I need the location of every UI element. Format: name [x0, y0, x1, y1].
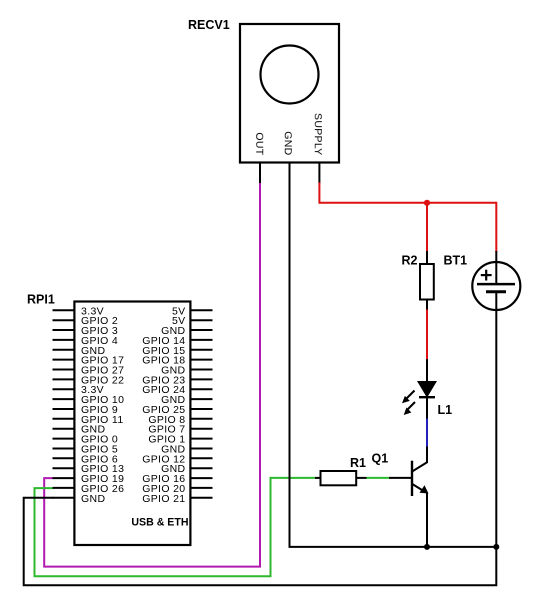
node junction red rail	[424, 200, 430, 206]
pin stub right row 4 (GPIO 14)	[190, 339, 213, 341]
pin stub right row 18 (GPIO 16)	[190, 477, 213, 479]
wire red SUPPLY to rail	[319, 182, 496, 202]
svg-text:USB & ETH: USB & ETH	[131, 517, 188, 529]
wire red rail down to R2	[426, 203, 428, 252]
pin stub right row 12 (GPIO 8)	[190, 418, 213, 420]
pin stub right row 5 (GPIO 15)	[190, 349, 213, 351]
wire black emitter/ground rail	[289, 546, 498, 548]
pin stub right row 3 (GND)	[190, 329, 213, 331]
pin stub right row 14 (GPIO 1)	[190, 438, 213, 440]
wire black RECV1 GND down	[289, 162, 291, 547]
pin stub right row 2 (5V)	[190, 319, 213, 321]
pin stub left row 19 (GPIO 26)	[53, 487, 76, 489]
pin stub left row 9 (3.3V)	[53, 388, 76, 390]
pin stub left row 8 (GPIO 22)	[53, 378, 76, 380]
svg-text:R1: R1	[350, 456, 366, 470]
wire black Q1 base lead	[389, 477, 412, 479]
svg-text:Q1: Q1	[372, 452, 389, 466]
pin stub left row 11 (GPIO 9)	[53, 408, 76, 410]
svg-text:GND: GND	[81, 493, 105, 505]
pin stub left row 14 (GPIO 0)	[53, 438, 76, 440]
svg-text:GND: GND	[282, 131, 294, 155]
wire blue LED to Q1 collector	[426, 419, 428, 448]
pin stub right row 15 (GND)	[190, 448, 213, 450]
wire black OUT pin lead	[259, 162, 261, 183]
resistor R2	[420, 264, 434, 300]
battery BT1	[472, 262, 520, 310]
wire black R2 bottom lead	[426, 299, 428, 311]
pin stub left row 5 (GND)	[53, 349, 76, 351]
pin stub right row 9 (GPIO 24)	[190, 388, 213, 390]
svg-text:BT1: BT1	[444, 254, 468, 268]
pin stub right row 6 (GPIO 18)	[190, 359, 213, 361]
wire black LED cathode lead	[426, 397, 428, 420]
LED L1	[402, 382, 436, 416]
node junction battery on ground rail	[493, 544, 499, 550]
wire black LED anode lead	[426, 359, 428, 382]
svg-text:R2: R2	[402, 254, 418, 268]
wire black battery top lead	[495, 251, 497, 284]
pin stub left row 17 (GPIO 13)	[53, 467, 76, 469]
wire black collector lead	[426, 447, 428, 463]
wire magenta OUT to GPIO 19	[44, 182, 260, 567]
node junction emitter on ground rail	[424, 544, 430, 550]
pin stub right row 17 (GND)	[190, 467, 213, 469]
pin stub right row 19 (GPIO 20)	[190, 487, 213, 489]
pin stub left row 20 (GND)	[53, 497, 76, 499]
svg-text:RPI1: RPI1	[27, 293, 55, 307]
pin stub left row 18 (GPIO 19)	[53, 477, 76, 479]
pin stub left row 7 (GPIO 27)	[53, 369, 76, 371]
pin stub right row 1 (5V)	[190, 309, 213, 311]
wire red battery plus	[495, 202, 497, 252]
wire green segment right of R1	[367, 477, 390, 479]
wire black SUPPLY pin lead	[318, 162, 320, 183]
wire black RPI GND to battery minus	[24, 498, 497, 586]
wire black battery minus down	[495, 292, 497, 547]
pin stub left row 16 (GPIO 6)	[53, 457, 76, 459]
pin stub left row 3 (GPIO 3)	[53, 329, 76, 331]
pin stub left row 12 (GPIO 11)	[53, 418, 76, 420]
pin stub right row 8 (GPIO 23)	[190, 378, 213, 380]
wire black R1 left lead	[315, 477, 321, 479]
svg-text:L1: L1	[438, 403, 453, 417]
wire black R2 top lead	[426, 251, 428, 265]
svg-text:GPIO 21: GPIO 21	[142, 493, 185, 505]
pin stub right row 16 (GPIO 12)	[190, 457, 213, 459]
pin stub left row 10 (GPIO 10)	[53, 398, 76, 400]
pin stub right row 10 (GND)	[190, 398, 213, 400]
pin stub left row 4 (GPIO 4)	[53, 339, 76, 341]
wire red R2 to LED	[426, 310, 428, 361]
svg-text:SUPPLY: SUPPLY	[312, 113, 324, 155]
pin stub left row 2 (GPIO 2)	[53, 319, 76, 321]
transistor Q1	[412, 447, 429, 547]
pin stub left row 6 (GPIO 17)	[53, 359, 76, 361]
pin stub right row 13 (GPIO 7)	[190, 428, 213, 430]
pin stub left row 1 (3.3V)	[53, 309, 76, 311]
IR receiver RECV1	[240, 24, 339, 163]
svg-text:RECV1: RECV1	[188, 18, 230, 32]
pin stub right row 20 (GPIO 21)	[190, 497, 213, 499]
raspberry pi RPI1	[74, 302, 190, 546]
pin stub left row 13 (GND)	[53, 428, 76, 430]
svg-text:OUT: OUT	[253, 132, 265, 155]
wire black R1 right lead	[356, 477, 367, 479]
wire green GPIO 26 to R1	[35, 478, 317, 576]
resistor R1	[321, 471, 357, 485]
pin stub right row 7 (GND)	[190, 369, 213, 371]
pin stub left row 15 (GPIO 5)	[53, 448, 76, 450]
pin stub right row 11 (GPIO 25)	[190, 408, 213, 410]
